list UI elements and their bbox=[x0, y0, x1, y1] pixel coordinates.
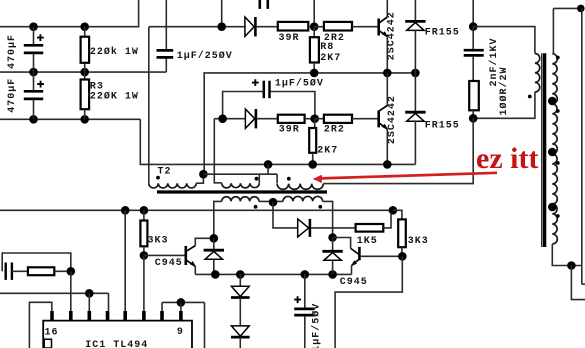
diode protection right bbox=[322, 233, 342, 274]
resistor 39R lower bbox=[257, 115, 315, 136]
wire emitter rail bottom bbox=[195, 270, 351, 279]
svg-text:ez itt: ez itt bbox=[476, 142, 538, 175]
wire top to snubber bbox=[469, 0, 478, 31]
wire lower-rail corner down to H1 bbox=[140, 119, 415, 164]
RC parallel network left bbox=[2, 253, 75, 320]
svg-text:FR155: FR155 bbox=[425, 121, 460, 132]
IC U1 TL494 bbox=[43, 311, 192, 348]
svg-text:16: 16 bbox=[45, 327, 59, 338]
capacitor 2nF/1KV bbox=[464, 27, 500, 87]
svg-text:2R2: 2R2 bbox=[324, 124, 345, 135]
svg-text:C945: C945 bbox=[155, 258, 183, 269]
wire pin 9 net bbox=[162, 298, 205, 348]
wire main bottom rail bbox=[0, 206, 402, 219]
resistor R3 220K 1W bbox=[81, 72, 139, 119]
transistor Q1 2SC4242 bbox=[379, 0, 398, 73]
diode feed to 1K5 bbox=[298, 219, 356, 237]
svg-text:1µF/25ØV: 1µF/25ØV bbox=[177, 50, 233, 62]
T1 core bbox=[542, 53, 545, 247]
T2 core bbox=[157, 190, 327, 193]
resistor 2R2 lower bbox=[310, 114, 377, 135]
svg-text:3K3: 3K3 bbox=[408, 236, 429, 247]
svg-text:3K3: 3K3 bbox=[148, 236, 169, 247]
svg-text:C945: C945 bbox=[340, 277, 368, 288]
wire snubber down to T2 primary end bbox=[323, 118, 473, 183]
resistor 220k 1W bbox=[81, 27, 139, 72]
transistor C945 right bbox=[333, 238, 403, 289]
diode rectifier chain upper bbox=[231, 274, 250, 326]
wire top rail bbox=[0, 0, 139, 28]
T2 winding C bbox=[277, 174, 323, 189]
resistor 3K3 left bbox=[140, 210, 168, 255]
svg-text:T2: T2 bbox=[158, 167, 172, 178]
svg-text:FR155: FR155 bbox=[425, 28, 460, 39]
node R8 top bbox=[310, 0, 319, 31]
svg-text:39R: 39R bbox=[279, 33, 300, 44]
svg-text:1µF/5ØV: 1µF/5ØV bbox=[275, 78, 324, 90]
annotation arrow bbox=[313, 173, 497, 183]
T1 primary coil bbox=[528, 54, 540, 99]
resistor 3K3 right bbox=[398, 219, 429, 256]
resistor 2K7 lower bbox=[309, 119, 338, 165]
diode protection left bbox=[204, 234, 224, 274]
capacitor C 470uF upper bbox=[7, 27, 44, 72]
wire lower rail left bbox=[0, 118, 140, 120]
node H1 junctions bbox=[264, 160, 392, 169]
T2 secondary right section bbox=[283, 196, 333, 237]
svg-text:22ØK 1W: 22ØK 1W bbox=[90, 91, 139, 103]
svg-text:39R: 39R bbox=[279, 124, 300, 135]
resistor 1K5 bbox=[356, 213, 391, 247]
svg-text:2K7: 2K7 bbox=[317, 146, 338, 157]
svg-text:1µF/5ØV: 1µF/5ØV bbox=[310, 303, 322, 348]
resistor 39R upper bbox=[257, 22, 315, 44]
wire pin 16 loop bbox=[29, 302, 51, 348]
wire mid rail (emitter rail) bbox=[204, 69, 420, 175]
capacitor top edge bbox=[260, 0, 268, 9]
node feed top bbox=[217, 0, 226, 31]
T2 primary winding A bbox=[149, 170, 208, 188]
transistor C945 left bbox=[140, 238, 214, 274]
svg-text:1K5: 1K5 bbox=[357, 236, 378, 247]
resistor 2R2 upper bbox=[314, 22, 377, 44]
T2 secondary center tap bbox=[269, 198, 298, 228]
wire base right to bottom edge bbox=[335, 252, 407, 348]
capacitor 1uF/250V bbox=[157, 0, 233, 72]
wire T2 top link bbox=[203, 173, 277, 175]
wire snubber loop to T1 primary bbox=[473, 27, 535, 54]
diode FR155 lower bbox=[405, 73, 460, 164]
wire mid rail left bbox=[0, 71, 166, 73]
svg-text:IC1 TL494: IC1 TL494 bbox=[85, 340, 148, 348]
wire right edge vertical bbox=[582, 8, 585, 284]
transformer T2 label bbox=[158, 167, 172, 178]
resistor 100R/2W bbox=[469, 66, 510, 118]
svg-text:R8: R8 bbox=[320, 42, 334, 53]
svg-text:1ØØR/2W: 1ØØR/2W bbox=[498, 66, 510, 115]
wire drive row 2 left bbox=[214, 114, 246, 123]
svg-text:22Øk 1W: 22Øk 1W bbox=[90, 46, 139, 58]
diode FR155 upper bbox=[405, 0, 460, 73]
capacitor C 470uF lower bbox=[7, 72, 44, 119]
wire T1 secondary bottom bbox=[552, 244, 585, 300]
svg-text:2SC4242: 2SC4242 bbox=[387, 11, 398, 60]
wire rail to pins bbox=[125, 210, 144, 320]
wire feedback row bbox=[0, 289, 109, 320]
resistor R8 2K7 bbox=[310, 27, 341, 73]
node junctions cap bank bbox=[29, 22, 89, 123]
diode D lower drive bbox=[245, 109, 256, 128]
diode D upper drive bbox=[245, 17, 256, 36]
svg-text:470µF: 470µF bbox=[7, 78, 18, 113]
wire vertical to T2 winding A bbox=[149, 27, 246, 184]
diode rectifier chain lower bbox=[231, 326, 250, 348]
svg-text:2K7: 2K7 bbox=[320, 53, 341, 64]
transistor Q2 2SC4242 bbox=[379, 73, 398, 164]
T1 secondary top wire bbox=[553, 5, 584, 54]
T1 secondary coil bbox=[548, 54, 560, 244]
svg-text:2SC4242: 2SC4242 bbox=[387, 95, 398, 144]
svg-text:470µF: 470µF bbox=[7, 34, 18, 69]
annotation text ez itt bbox=[476, 142, 538, 175]
T2 winding B bbox=[214, 119, 268, 188]
wire T1 primary bottom to snubber bbox=[469, 92, 535, 123]
capacitor 1uF/50V output bbox=[294, 274, 322, 348]
T2 secondary left section bbox=[214, 197, 283, 239]
svg-text:9: 9 bbox=[177, 327, 184, 338]
capacitor 1uF/50V drive bbox=[223, 78, 324, 119]
